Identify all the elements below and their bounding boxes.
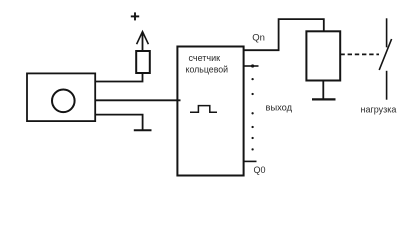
svg-text:Q0: Q0 <box>254 165 266 175</box>
switch contact S1 lower terminal <box>386 71 388 100</box>
generator G1 box <box>27 73 95 121</box>
wire G1 clock output to counter U1 <box>95 99 180 101</box>
clock pulse symbol inside U1 <box>190 106 217 113</box>
ellipsis dot 5 <box>251 137 253 139</box>
wire G1 to ground <box>95 115 142 130</box>
ellipsis dot 4 <box>251 126 253 128</box>
counter U1 box <box>177 47 243 176</box>
relay coil K1 (load driver) <box>306 31 340 80</box>
wire output pin Q0 <box>244 160 257 162</box>
+V supply label <box>131 12 139 20</box>
svg-text:счетчик: счетчик <box>189 53 221 63</box>
svg-text:нагрузка: нагрузка <box>361 105 397 115</box>
mechanical link (dashed) coil to contact <box>340 53 379 55</box>
resistor R1 <box>136 51 150 73</box>
wire output pin Q(n-1) <box>244 65 259 67</box>
wire output Qn to relay coil K1 <box>244 19 324 50</box>
ground symbol (left) <box>134 129 152 131</box>
junction dot on Q(n-1) pin <box>251 64 254 67</box>
arrowhead <box>137 32 149 45</box>
generator G1 circle symbol <box>52 90 75 113</box>
svg-text:Qn: Qn <box>252 32 265 43</box>
ellipsis dot 1 <box>251 78 253 80</box>
svg-text:кольцевой: кольцевой <box>186 65 229 75</box>
wire G1 to resistor R1 <box>95 73 142 82</box>
arrow to +V supply <box>142 32 144 51</box>
svg-text:выход: выход <box>266 102 293 112</box>
wire K1 to ground <box>322 81 324 100</box>
switch contact S1 blade <box>379 39 391 70</box>
ellipsis dot 3 <box>251 112 253 114</box>
switch contact S1 upper terminal <box>386 18 388 47</box>
ground symbol (right) <box>312 98 336 100</box>
ellipsis dot 6 <box>251 148 253 150</box>
ellipsis dot 2 <box>251 93 253 95</box>
